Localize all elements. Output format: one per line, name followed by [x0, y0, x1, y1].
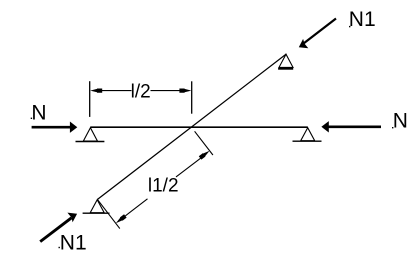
dot near N right [392, 127, 393, 128]
force arrow N1 bottom (head) [67, 213, 77, 223]
dimension l/2 : line left segment [102, 90, 132, 92]
dimension l/2 : right extension line [191, 81, 193, 113]
svg-text:l1/2: l1/2 [148, 176, 179, 197]
force arrow N left (shaft) [32, 126, 71, 129]
support bottom (pin triangle) [90, 200, 104, 213]
dimension l1/2 : line lower segment [125, 199, 147, 216]
dimension l/2 : left arrowhead [90, 89, 102, 93]
dimension l1/2 : line upper segment [176, 158, 201, 177]
ground line left support [76, 141, 105, 143]
force arrow N left (head) [70, 122, 77, 133]
dimension l1/2 : arrowhead at bottom end [115, 214, 127, 225]
support left (pin triangle) [83, 128, 97, 141]
force arrow N1 bottom (shaft) [40, 218, 71, 242]
dot near N left [31, 118, 32, 119]
support right (pin triangle) [301, 128, 315, 141]
force arrow N right (shaft) [328, 126, 381, 129]
dot near N1 top [349, 26, 350, 27]
svg-text:N: N [393, 109, 408, 132]
force arrow N1 top (shaft) [304, 19, 337, 44]
support top (pin triangle) [279, 54, 293, 67]
dimension l/2 : right arrowhead [179, 89, 191, 93]
svg-text:l/2: l/2 [131, 82, 151, 103]
dimension l1/2 : extension line at crossing [195, 131, 213, 155]
force arrow N1 top (head) [299, 39, 309, 48]
dimension l1/2 : arrowhead at crossing end [199, 149, 211, 160]
ground line right support [293, 140, 322, 142]
svg-text:N: N [31, 102, 46, 125]
svg-text:N1: N1 [349, 8, 376, 31]
force arrow N right (head) [321, 121, 328, 132]
svg-text:N1: N1 [60, 231, 87, 254]
dimension l/2 : line right segment [151, 90, 180, 92]
dimension l/2 : left extension line [89, 81, 91, 117]
diagonal bar [98, 54, 287, 199]
dimension l1/2 : extension line at bottom support [98, 200, 120, 229]
dot near N1 bottom [59, 247, 60, 248]
ground line bottom support [83, 212, 110, 214]
beam (horizontal bar) [90, 126, 307, 128]
ground line top support [278, 68, 293, 70]
